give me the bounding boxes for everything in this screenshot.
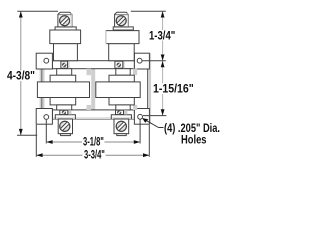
terminal 1 screw: [59, 15, 69, 25]
svg-text:4-3/8": 4-3/8": [7, 71, 35, 83]
winding shadow stub left-mid upper: [87, 69, 92, 76]
terminal 1 block: [50, 30, 81, 44]
bar screw top-2: [117, 63, 122, 68]
coil 2 winding: [96, 82, 140, 98]
bottom bar shading: [53, 117, 134, 119]
hole bottom-left: [44, 115, 49, 120]
bottom terminal 2 box: [114, 119, 129, 134]
mounting ear bottom-right: [134, 109, 149, 125]
note text holes: [163, 122, 165, 124]
bottom terminal 1 box: [58, 119, 72, 134]
coil 1 winding: [37, 82, 89, 98]
bar screw shadow top-2: [123, 62, 125, 69]
bottom terminal 2 screw: [116, 121, 126, 131]
terminal 1 flange: [55, 27, 76, 30]
coil 2 neck upper: [116, 69, 130, 76]
core edge line right: [147, 69, 149, 109]
terminal 2 cap bevel: [115, 14, 128, 16]
svg-text:3-1/8": 3-1/8": [83, 137, 104, 149]
winding shadow stub right-mid upper: [133, 69, 137, 76]
coil 2 neck lower: [116, 105, 130, 110]
bottom terminal 2 flange: [117, 134, 126, 136]
dimension text 4-3/8: [7, 69, 36, 71]
coil 1 flange lower: [50, 98, 76, 105]
dimension 4-3/8 extension top: [17, 10, 58, 12]
mounting ear bottom-left: [36, 109, 52, 125]
dimension 3-3/4 extension lines: [35, 125, 37, 157]
dimension text 3-1/8: [82, 135, 84, 137]
coil 2 flange upper: [109, 75, 134, 82]
extension line top right: [131, 10, 166, 12]
terminal 2 cap side shade: [127, 14, 128, 27]
bar screw bottom-2: [117, 110, 121, 114]
svg-text:(4) .205" Dia.: (4) .205" Dia.: [164, 123, 220, 135]
dimension 4-3/8 arrows: [19, 11, 23, 135]
dimension 3-3/4 arrows: [36, 153, 149, 157]
dimension text 3-3/4: [83, 148, 85, 150]
dimension 1-3/4 and 1-15/16 vertical line: [162, 11, 164, 115]
hole bottom-right: [138, 114, 143, 119]
bar screw shadow bottom-1: [68, 110, 72, 114]
winding shadow stub right-mid lower: [133, 105, 137, 110]
dimension 3-1/8 line: [46, 141, 140, 143]
terminal 2 block: [106, 30, 140, 44]
bar screw box top-2: [115, 61, 123, 68]
terminal 2 flange: [113, 27, 133, 30]
extension line hole right: [142, 60, 166, 62]
terminal 2 cap: [115, 12, 129, 27]
terminal 2 neck: [109, 44, 135, 61]
svg-text:1-15/16": 1-15/16": [153, 83, 194, 95]
bar screw box bottom-2: [116, 110, 124, 114]
core edge line left: [41, 69, 43, 109]
bottom terminal 1 screw: [60, 121, 70, 131]
terminal 1 neck: [54, 44, 78, 61]
dimension right arrows: [161, 11, 165, 115]
core lamination strip middle: [91, 69, 95, 110]
dimension 4-3/8 vertical line: [20, 11, 22, 135]
top bar: [52, 61, 134, 69]
terminal 1 cap: [58, 12, 72, 27]
terminal 1 cap side shade: [70, 14, 72, 27]
svg-text:3-3/4": 3-3/4": [84, 149, 105, 161]
core lamination strip right: [147, 53, 151, 124]
svg-text:1-3/4": 1-3/4": [149, 30, 175, 42]
dimension text 1-15/16: [152, 82, 154, 84]
bar screw box top-1: [61, 61, 68, 68]
bottom terminal 2 step: [111, 115, 131, 119]
dimension 4-3/8 extension bottom: [17, 134, 37, 136]
bar screw shadow top-1: [68, 62, 70, 69]
mounting ear top-right: [134, 53, 149, 69]
dimension 3-1/8 arrows: [46, 140, 140, 144]
terminal 1 cap bevel: [59, 14, 72, 16]
mounting ear top-left: [36, 53, 52, 69]
svg-text:Holes: Holes: [181, 134, 207, 146]
leader line holes note: [143, 119, 164, 128]
coil 2 flange lower: [109, 98, 134, 105]
bar screw box bottom-1: [60, 110, 68, 114]
leader arrowhead: [142, 118, 148, 123]
bottom terminal 1 step: [55, 115, 75, 119]
bar screw shadow bottom-2: [124, 110, 128, 114]
dimension text 1-3/4: [148, 29, 150, 31]
bar screw top-1: [62, 63, 67, 68]
hole top-left: [44, 58, 49, 63]
terminal 2 screw: [116, 15, 126, 25]
bar screw bottom-1: [62, 110, 66, 114]
dimension 3-3/4 line: [36, 154, 149, 156]
bottom bar: [52, 110, 134, 119]
coil 1 neck upper: [57, 69, 72, 76]
winding shadow stub left-mid lower: [87, 105, 92, 110]
extension line hole bottom right: [143, 115, 166, 117]
bottom terminal 1 flange: [61, 134, 71, 136]
coil 1 neck lower: [57, 105, 72, 110]
dimension 3-1/8 extension lines: [45, 120, 47, 144]
hole top-right: [137, 58, 142, 63]
coil 1 flange upper: [50, 75, 76, 82]
core lamination strip left: [40, 60, 45, 115]
